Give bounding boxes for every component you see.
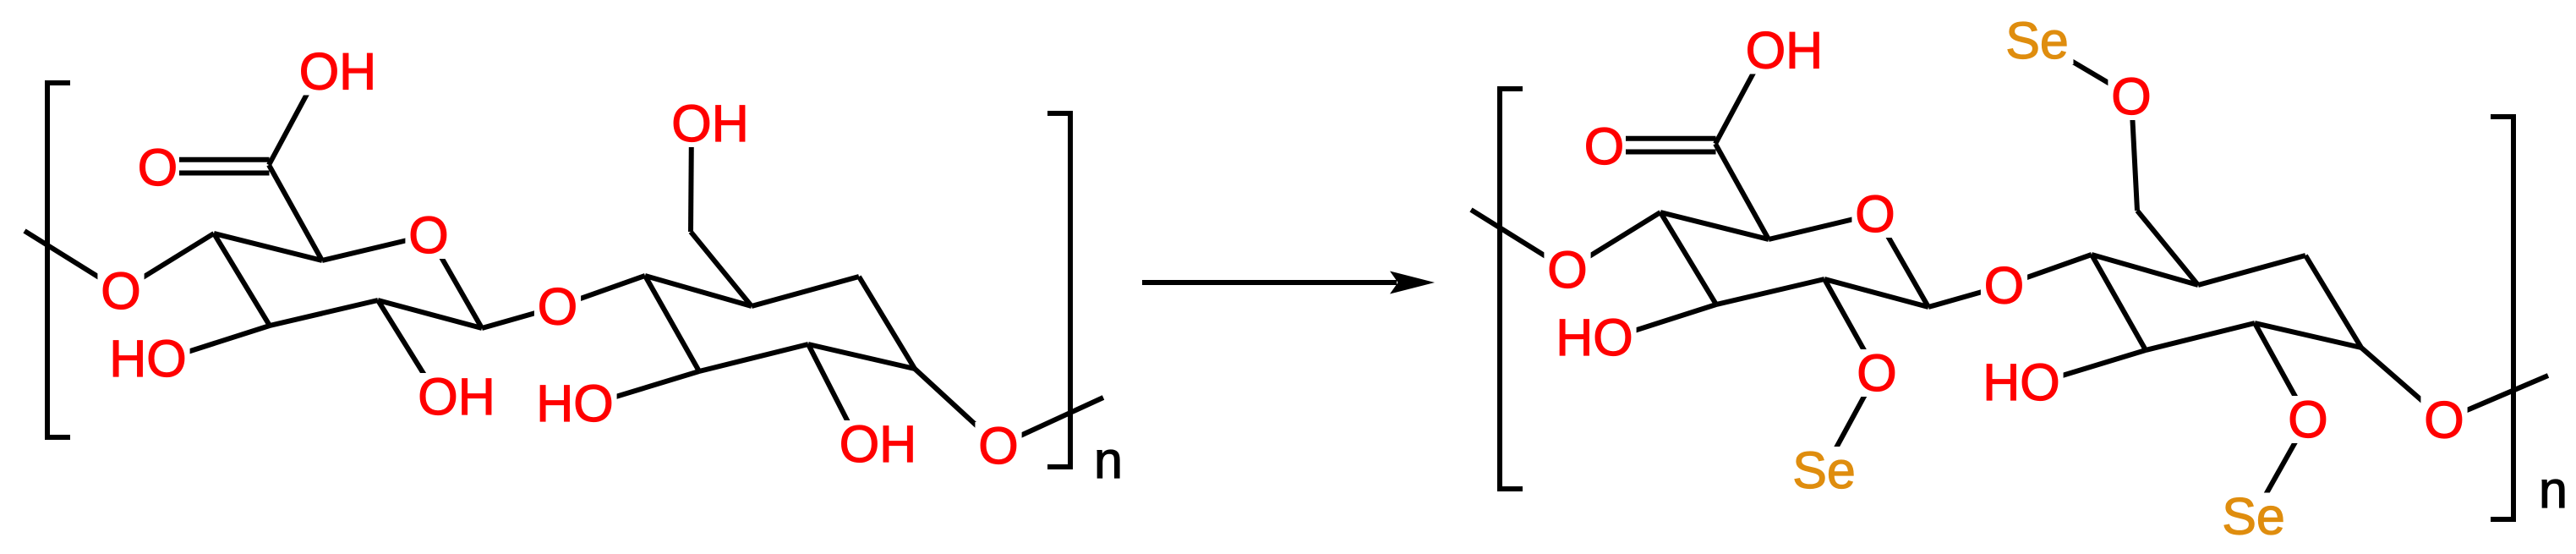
svg-text:OH: OH <box>671 95 749 152</box>
svg-text:Se: Se <box>2005 12 2069 69</box>
svg-text:O: O <box>978 417 1018 474</box>
svg-text:OH: OH <box>418 368 495 425</box>
svg-text:O: O <box>101 262 140 320</box>
svg-text:O: O <box>2288 391 2327 448</box>
svg-text:O: O <box>1984 257 2024 315</box>
svg-text:O: O <box>1547 241 1587 299</box>
svg-text:Se: Se <box>2222 488 2285 546</box>
svg-text:O: O <box>2111 68 2151 125</box>
svg-text:OH: OH <box>840 415 916 473</box>
svg-text:O: O <box>538 278 577 336</box>
svg-text:OH: OH <box>1746 22 1824 80</box>
svg-text:OH: OH <box>299 43 377 101</box>
svg-text:O: O <box>138 139 178 196</box>
svg-text:Se: Se <box>1792 442 1856 499</box>
svg-text:O: O <box>2424 392 2464 449</box>
svg-text:HO: HO <box>1983 354 2060 411</box>
svg-text:n: n <box>2539 461 2568 518</box>
svg-text:HO: HO <box>536 375 614 432</box>
svg-text:HO: HO <box>109 330 187 387</box>
svg-text:O: O <box>1855 185 1895 243</box>
svg-text:O: O <box>1584 118 1624 175</box>
svg-text:O: O <box>408 206 448 264</box>
svg-text:O: O <box>1857 344 1896 402</box>
svg-text:n: n <box>1094 431 1123 489</box>
svg-text:HO: HO <box>1556 309 1633 366</box>
